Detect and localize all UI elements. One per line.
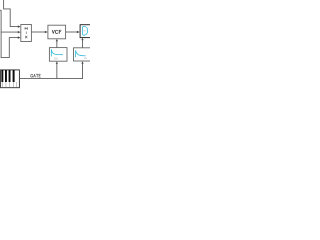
wire from node B down and into MIX input 3 xyxy=(1,32,19,58)
arrowhead up into EG2 bottom xyxy=(81,61,83,63)
wire EG1 up into VCF (arrow up) xyxy=(56,41,58,48)
wire from VCO1 (off-screen top) into MIX input 1 xyxy=(4,0,19,27)
svg-text:EN: EN xyxy=(54,58,58,60)
gate main horizontal wire xyxy=(20,63,83,79)
EG2 envelope curve xyxy=(76,50,86,57)
filter block VCF xyxy=(48,25,66,39)
arrowhead into MIX input 3 xyxy=(18,36,21,39)
black key 3 xyxy=(9,70,11,82)
EG1 envelope curve xyxy=(51,49,63,56)
keyboard icon xyxy=(1,70,20,88)
label X xyxy=(25,36,27,39)
arrowhead up into VCA bottom xyxy=(81,38,83,40)
VCA amplifier icon xyxy=(83,26,88,35)
arrowhead into VCF xyxy=(45,31,48,34)
wire EG2 up into VCA (arrow up) xyxy=(82,39,84,47)
envelope block EG2 (modulates VCA, cut off at right edge) xyxy=(74,48,92,61)
mixer block MIX xyxy=(21,25,32,42)
black key 2 xyxy=(5,70,7,82)
envelope block EG1 (modulates VCF) xyxy=(49,48,67,62)
svg-text:m: m xyxy=(84,31,86,33)
black key 4 xyxy=(13,70,15,82)
background xyxy=(0,0,90,90)
label I xyxy=(25,32,27,35)
label M xyxy=(25,27,27,29)
label VCF xyxy=(52,30,61,33)
arrowhead up into EG1 bottom xyxy=(56,61,58,63)
arrowhead up into VCF bottom xyxy=(56,39,58,41)
amplifier block VCA (cut off at right edge) xyxy=(80,25,98,38)
arrowhead into VCA xyxy=(77,31,80,34)
GATE label xyxy=(31,74,41,77)
arrowhead into MIX input 2 xyxy=(18,31,21,33)
gate branch up to EG1 xyxy=(56,63,58,78)
white key separators xyxy=(2,82,16,87)
gate wire: keyboard to EG1 and EG2 xyxy=(20,63,83,79)
black key 1 xyxy=(1,70,3,82)
arrowhead into MIX input 1 xyxy=(18,25,21,28)
wire VCF to VCA xyxy=(66,31,78,33)
wire from VCO2 (off-screen left) into MIX input 2 xyxy=(0,10,19,32)
wire MIX to VCF xyxy=(31,31,46,33)
